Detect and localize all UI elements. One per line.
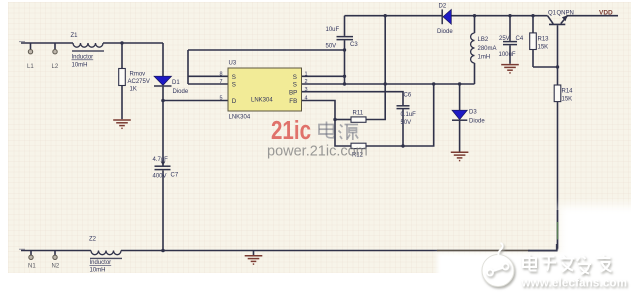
svg-text:50V: 50V (326, 43, 337, 49)
svg-text:100uF: 100uF (499, 52, 516, 58)
svg-text:1: 1 (305, 71, 308, 77)
svg-text:power.21ic.com: power.21ic.com (267, 144, 368, 160)
svg-text:Z2: Z2 (89, 236, 97, 242)
svg-text:Inductor: Inductor (72, 55, 94, 61)
svg-text:3: 3 (305, 87, 308, 93)
svg-text:L2: L2 (52, 64, 59, 70)
svg-text:C7: C7 (171, 172, 179, 178)
svg-text:AC275V: AC275V (128, 79, 150, 85)
svg-text:10mH: 10mH (72, 63, 88, 69)
svg-text:FB: FB (289, 98, 297, 105)
svg-text:S: S (293, 82, 297, 89)
svg-text:D3: D3 (469, 109, 477, 115)
svg-text:7: 7 (220, 79, 223, 85)
svg-text:0.1uF: 0.1uF (401, 112, 417, 118)
svg-text:Diode: Diode (469, 118, 485, 124)
svg-text:2: 2 (305, 79, 308, 85)
svg-text:4.7uF: 4.7uF (153, 157, 169, 163)
svg-text:BP: BP (289, 89, 297, 96)
svg-text:10mH: 10mH (90, 268, 106, 274)
svg-text:1mH: 1mH (478, 55, 491, 61)
svg-text:10uF: 10uF (326, 27, 340, 33)
svg-text:C3: C3 (350, 42, 358, 48)
svg-text:8: 8 (220, 71, 223, 77)
svg-text:Diode: Diode (173, 89, 189, 95)
svg-text:R14: R14 (562, 88, 574, 94)
svg-text:www.elecfans.com: www.elecfans.com (521, 278, 628, 290)
svg-text:QNPN: QNPN (557, 11, 574, 17)
svg-text:LNK304: LNK304 (229, 114, 251, 120)
svg-text:N1: N1 (28, 263, 36, 269)
svg-text:5: 5 (220, 96, 223, 102)
svg-text:4: 4 (305, 96, 308, 102)
svg-text:Q1: Q1 (548, 10, 557, 16)
svg-text:D2: D2 (439, 3, 447, 9)
svg-text:Inductor: Inductor (90, 260, 112, 266)
svg-text:D1: D1 (172, 80, 180, 86)
svg-text:Diode: Diode (437, 29, 453, 35)
svg-text:25V: 25V (499, 36, 510, 42)
svg-text:S: S (232, 82, 236, 89)
svg-text:LB2: LB2 (478, 37, 489, 43)
svg-text:C4: C4 (516, 36, 524, 42)
svg-text:VDD: VDD (599, 10, 613, 17)
svg-text:280mA: 280mA (478, 46, 497, 52)
svg-text:400V: 400V (153, 173, 167, 179)
svg-text:50V: 50V (401, 120, 412, 126)
svg-text:LNK304: LNK304 (251, 98, 273, 104)
svg-text:L1: L1 (27, 64, 34, 70)
svg-text:S: S (232, 74, 236, 81)
svg-text:D: D (232, 98, 237, 105)
svg-text:C6: C6 (404, 92, 412, 98)
svg-text:15K: 15K (562, 96, 573, 102)
svg-text:R11: R11 (353, 110, 364, 116)
svg-text:N2: N2 (52, 263, 60, 269)
svg-text:Z1: Z1 (71, 33, 79, 39)
svg-text:Rmov: Rmov (130, 72, 146, 78)
svg-text:21ic: 21ic (271, 117, 311, 145)
svg-text:15K: 15K (538, 44, 549, 50)
svg-text:S: S (293, 74, 297, 81)
svg-text:U3: U3 (229, 60, 237, 66)
svg-text:1K: 1K (130, 87, 137, 93)
svg-text:R13: R13 (538, 36, 550, 42)
